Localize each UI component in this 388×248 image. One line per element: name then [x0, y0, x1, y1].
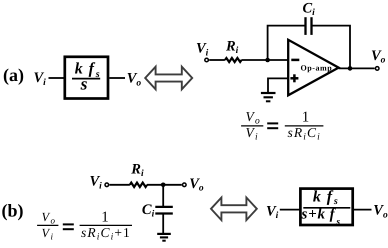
output terminal circle (RC) [183, 183, 187, 187]
svg-text:Vi: Vi [90, 174, 103, 192]
label (a) [3, 65, 24, 85]
wire terminal to resistor [209, 59, 225, 61]
svg-text:1: 1 [101, 210, 109, 226]
input terminal circle [205, 58, 209, 62]
svg-text:Vo: Vo [371, 48, 386, 65]
label (b) [2, 201, 24, 221]
svg-text:s: s [80, 74, 88, 94]
svg-text:Op-amp: Op-amp [301, 63, 333, 72]
svg-text:1: 1 [302, 110, 310, 126]
feedback wire up and across [268, 26, 305, 60]
node Vo (op-amp circuit output) [371, 48, 386, 65]
node Vo (RC circuit output) [189, 176, 204, 194]
svg-text:Vi: Vi [266, 203, 279, 221]
svg-text:Vi: Vi [42, 226, 54, 241]
wire capacitor to output branch [312, 26, 351, 69]
wire block b to Vo [354, 209, 372, 211]
svg-text:sRiCi+1: sRiCi+1 [81, 225, 131, 242]
svg-text:Vo: Vo [246, 109, 261, 126]
equivalence arrow (a) [145, 67, 192, 90]
svg-text:Ci: Ci [303, 0, 316, 18]
wire resistor to op-amp inverting input [241, 59, 288, 61]
resistor Ri label (RC) [130, 161, 144, 179]
resistor Ri (RC) [130, 183, 147, 187]
node Vo (block b output) [373, 203, 388, 221]
ground (RC circuit) [157, 234, 171, 241]
wire op-amp output to Vo [339, 67, 375, 69]
svg-text:Vi: Vi [246, 125, 259, 142]
wire resistor to output terminal (RC) [147, 184, 182, 186]
svg-text:Vo: Vo [127, 71, 142, 89]
capacitor Ci (RC) [155, 207, 173, 214]
ground (op-amp circuit) [261, 93, 276, 101]
node Vi (RC circuit input) [90, 174, 103, 192]
junction node at output [348, 66, 353, 71]
svg-text:Vo: Vo [189, 176, 204, 194]
svg-text:(a): (a) [3, 65, 24, 85]
wire non-inverting input to ground [268, 78, 288, 92]
capacitor Ci [306, 17, 312, 35]
block H(s)=kfs/(s+kfs) [300, 188, 352, 227]
equation (a) Vo/Vi = 1/(sRiCi) [241, 109, 323, 142]
node Vi (op-amp circuit input) [196, 41, 209, 59]
svg-text:Ri: Ri [130, 161, 144, 179]
wire Vi to block b [280, 209, 300, 211]
node Vi (block b input) [266, 203, 279, 221]
svg-text:kfs: kfs [313, 188, 338, 207]
wire block a to Vo [109, 77, 125, 79]
input terminal circle (RC) [105, 183, 109, 187]
junction node (RC) [161, 183, 166, 188]
svg-text:Vo: Vo [42, 210, 56, 225]
block H(s)=kfs/s [65, 57, 108, 99]
wire terminal to resistor (RC) [109, 184, 129, 186]
junction node at inverting input [265, 58, 270, 63]
capacitor Ci label (RC) [142, 202, 155, 220]
svg-text:Ri: Ri [225, 38, 239, 56]
svg-text:Vi: Vi [196, 41, 209, 59]
equivalence arrow (b) [211, 198, 257, 221]
resistor Ri label [225, 38, 239, 56]
svg-text:Vo: Vo [373, 203, 388, 221]
wire capacitor to ground (RC) [162, 214, 164, 234]
wire junction down to capacitor (RC) [162, 185, 164, 206]
node Vi (block a input) [34, 70, 47, 88]
svg-text:Ci: Ci [142, 202, 155, 220]
wire Vi to block a [49, 77, 65, 79]
op-amp U1 [288, 40, 338, 96]
svg-text:Vi: Vi [34, 70, 47, 88]
node Vo (block a output) [127, 71, 142, 89]
capacitor Ci label [303, 0, 316, 18]
output terminal circle [375, 67, 379, 71]
resistor Ri [225, 58, 242, 62]
svg-text:sRiCi: sRiCi [288, 125, 321, 142]
svg-text:(b): (b) [2, 201, 24, 221]
equation (b) Vo/Vi = 1/(sRiCi+1) [37, 210, 132, 243]
